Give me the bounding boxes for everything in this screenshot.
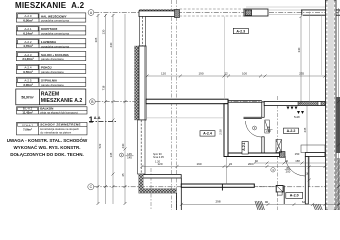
svg-text:200: 200 bbox=[286, 169, 291, 173]
dim chain 3 y204 bbox=[182, 203, 340, 205]
door label 3 80/200 bbox=[253, 126, 257, 130]
wall top-right return bbox=[301, 10, 303, 15]
shaft rect bbox=[276, 140, 282, 153]
svg-text:posadzka ceramiczna: posadzka ceramiczna bbox=[41, 31, 69, 35]
svg-text:9,50m²: 9,50m² bbox=[23, 70, 33, 74]
far right dim line bbox=[338, 8, 340, 210]
svg-text:60: 60 bbox=[255, 159, 258, 163]
svg-text:RAZEM: RAZEM bbox=[41, 92, 59, 98]
balcony door opening lines bbox=[268, 9, 301, 11]
svg-text:120: 120 bbox=[161, 72, 166, 76]
svg-text:190: 190 bbox=[198, 72, 203, 76]
right thin line x310 bbox=[309, 12, 311, 102]
svg-text:3,00m²: 3,00m² bbox=[23, 83, 33, 87]
svg-text:MIESZKANIE A.2: MIESZKANIE A.2 bbox=[15, 1, 85, 10]
window label 2 145/145 bbox=[120, 153, 124, 157]
svg-text:posadzka ceramiczna: posadzka ceramiczna bbox=[41, 44, 69, 48]
svg-text:240: 240 bbox=[109, 42, 113, 47]
dashed beam line bbox=[146, 117, 224, 119]
svg-text:2.58: 2.58 bbox=[218, 129, 222, 135]
svg-text:hma 2.35: hma 2.35 bbox=[153, 155, 164, 159]
svg-text:22: 22 bbox=[285, 159, 288, 163]
svg-text:6,14m²: 6,14m² bbox=[23, 31, 33, 35]
left dimension chain verticals bbox=[98, 14, 125, 204]
window left top bbox=[140, 17, 146, 47]
table row A-2.2 ŁAZIENKA bbox=[16, 39, 86, 48]
dim chain 1 y76 bbox=[147, 75, 325, 77]
door jamb block bbox=[280, 152, 286, 158]
svg-text:HAL WEJŚCIOWY: HAL WEJŚCIOWY bbox=[41, 13, 67, 18]
gray line above V1 bbox=[224, 17, 226, 100]
W2 hatched block bbox=[298, 102, 318, 106]
svg-text:płyta na słupach lub kompozyt: płyta na słupach lub kompozyt bbox=[40, 111, 78, 115]
column block top bbox=[175, 10, 180, 18]
washbasin rect bathroom bbox=[265, 120, 270, 133]
bathroom dim x307 bbox=[306, 106, 308, 152]
bathroom top wall W2 bbox=[264, 102, 325, 106]
svg-text:190: 190 bbox=[196, 162, 201, 166]
door label 3 80/200 hall bbox=[271, 168, 275, 172]
svg-text:22: 22 bbox=[224, 72, 228, 76]
svg-text:panele drewniane: panele drewniane bbox=[41, 57, 64, 61]
table row B.L-A.2 BALKON bbox=[17, 107, 88, 114]
bottom-left corner wall bbox=[141, 175, 181, 178]
vertical axis dashed pair x171/176 bbox=[172, 0, 177, 210]
room label A-2.3 bbox=[233, 28, 248, 33]
svg-text:panele drewniane: panele drewniane bbox=[41, 70, 64, 74]
wall going down at step bbox=[176, 178, 181, 210]
top thin line bbox=[246, 6, 326, 8]
svg-text:22: 22 bbox=[229, 162, 233, 166]
table row A-2.4 POKÓJ bbox=[16, 64, 86, 73]
svg-text:150: 150 bbox=[295, 152, 300, 156]
axis A horizontal bbox=[88, 10, 340, 16]
svg-text:158: 158 bbox=[295, 159, 300, 163]
svg-text:A-2.3: A-2.3 bbox=[236, 29, 245, 33]
balcony dashed band above bbox=[180, 9, 245, 16]
wall top-left with insulation bbox=[139, 9, 179, 11]
door arc corridor-bathroom bbox=[246, 121, 262, 137]
svg-text:145: 145 bbox=[109, 152, 113, 157]
room label A-2.1 vertical bbox=[242, 142, 248, 155]
axis B horizontal bbox=[90, 99, 340, 105]
dim sub chain y163 bbox=[255, 162, 326, 164]
table row A-2.5 SYPIALNIA bbox=[16, 77, 86, 86]
window left lower (145/145) bbox=[138, 120, 146, 174]
svg-text:64: 64 bbox=[302, 200, 306, 204]
svg-text:A-A: A-A bbox=[94, 116, 101, 120]
door arc hall bbox=[285, 156, 305, 176]
svg-text:56,97m²: 56,97m² bbox=[21, 95, 34, 99]
right exterior wall bbox=[326, 0, 337, 210]
dashed wall continuation bbox=[254, 186, 275, 188]
wall segment top-middle bbox=[244, 9, 268, 16]
right inner dim line x301 bbox=[300, 17, 302, 103]
table row RAZEM MIESZKANIE A.2 bbox=[16, 89, 86, 105]
svg-text:posadzka ceramiczna: posadzka ceramiczna bbox=[41, 19, 69, 23]
vertical axis dashed x277 bbox=[276, 96, 278, 210]
left wall upper with insulation bbox=[135, 46, 140, 120]
svg-text:WYKONAĆ WG. RYS. KONSTR.: WYKONAĆ WG. RYS. KONSTR. bbox=[13, 143, 80, 150]
vertical dashed x151 bbox=[150, 168, 152, 210]
interior wall W1 horizontal bbox=[146, 99, 228, 104]
svg-text:523: 523 bbox=[98, 143, 102, 148]
entry jamb box bbox=[276, 186, 283, 193]
svg-text:11,43m²: 11,43m² bbox=[22, 110, 32, 114]
entry side wall line bbox=[283, 186, 285, 205]
svg-text:do mieszkania na piętrze: do mieszkania na piętrze bbox=[40, 130, 71, 134]
svg-text:UWAGA - KONSTR. STAL. SCHODÓW: UWAGA - KONSTR. STAL. SCHODÓW bbox=[7, 136, 88, 143]
svg-text:7,06m²: 7,06m² bbox=[23, 128, 32, 132]
bathroom bottom wall W3a bbox=[228, 153, 280, 157]
wall W3b right of door bbox=[305, 153, 325, 157]
table row A-2.0 HAL WEJŚCIOWY bbox=[16, 13, 86, 22]
bathtub bbox=[301, 145, 325, 153]
table row A-2.1 KORYTARZ bbox=[16, 26, 86, 35]
svg-text:718: 718 bbox=[102, 85, 106, 90]
svg-text:6,00m²: 6,00m² bbox=[23, 19, 33, 23]
svg-text:4,76m²: 4,76m² bbox=[23, 44, 33, 48]
room label A-2.4 bbox=[200, 131, 215, 136]
svg-text:120: 120 bbox=[157, 162, 162, 166]
room label A-2.2 bbox=[284, 128, 299, 133]
svg-text:340: 340 bbox=[297, 47, 301, 52]
svg-text:A-2.4: A-2.4 bbox=[203, 132, 212, 136]
svg-text:130: 130 bbox=[102, 29, 106, 34]
svg-text:45: 45 bbox=[121, 173, 125, 177]
svg-text:A-2.2: A-2.2 bbox=[287, 129, 296, 133]
svg-text:298: 298 bbox=[215, 200, 220, 204]
svg-text:A-2.1: A-2.1 bbox=[242, 142, 246, 150]
svg-text:A-2.0: A-2.0 bbox=[290, 194, 299, 198]
svg-text:POKÓJ: POKÓJ bbox=[41, 65, 52, 70]
wall below door vertical bbox=[305, 157, 308, 205]
svg-text:MIESZKANIE A.2: MIESZKANIE A.2 bbox=[41, 98, 83, 104]
svg-text:panele drewniane: panele drewniane bbox=[41, 83, 64, 87]
svg-text:365: 365 bbox=[94, 37, 98, 42]
thin line below V1 bbox=[225, 157, 227, 185]
svg-text:DOŁĄCZONYCH DO DOK. TECHN.: DOŁĄCZONYCH DO DOK. TECHN. bbox=[10, 152, 84, 157]
wardrobe band corridor bbox=[228, 101, 262, 119]
svg-text:100: 100 bbox=[242, 72, 247, 76]
svg-text:235: 235 bbox=[299, 72, 304, 76]
wall top-right bbox=[301, 10, 340, 15]
axis C horizontal bbox=[88, 184, 340, 190]
dim chain 2 y167 bbox=[142, 165, 325, 167]
gray block right edge lower bbox=[336, 158, 340, 210]
dark block right edge upper bbox=[336, 97, 340, 153]
column block top-middle bbox=[245, 10, 252, 15]
interior wall V1 vertical bbox=[224, 104, 228, 157]
vent triangles bbox=[287, 107, 305, 115]
svg-text:145: 145 bbox=[127, 155, 132, 159]
table row SCH-A.2 SCHODY ZEWNETRZNE bbox=[17, 122, 88, 134]
bathroom left wall V2 upper bbox=[262, 102, 264, 117]
corner stub left end bbox=[221, 184, 223, 190]
svg-text:235: 235 bbox=[303, 127, 307, 132]
room label A-2.0 bbox=[286, 193, 303, 199]
hall small dim line x309 bbox=[308, 157, 310, 187]
svg-text:24,30m²: 24,30m² bbox=[22, 57, 33, 61]
wall bottom A bbox=[181, 184, 254, 187]
svg-text:200: 200 bbox=[248, 162, 253, 166]
stairs hatch bottom bbox=[255, 201, 264, 210]
bathroom left wall V2 lower bbox=[262, 137, 264, 157]
stairs hatch bottom right bbox=[313, 204, 322, 210]
svg-text:240: 240 bbox=[121, 143, 125, 148]
svg-text:90: 90 bbox=[265, 200, 269, 204]
svg-text:5x18: 5x18 bbox=[294, 115, 300, 119]
table row A-2.3 SALON + KUCHNIA bbox=[16, 51, 86, 60]
